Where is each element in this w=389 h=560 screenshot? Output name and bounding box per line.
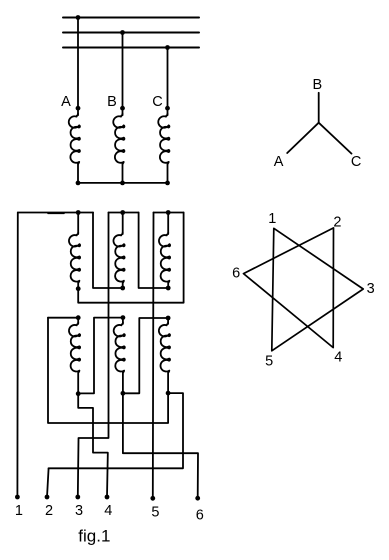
junction coil 1a top bbox=[76, 210, 81, 215]
svg-text:2: 2 bbox=[333, 214, 341, 230]
wire: bracket coil2b-bottom to coil3b-top bbox=[123, 318, 168, 393]
wire: coil1b-top down and over to coil3b-bottom bbox=[48, 318, 168, 423]
junction coil2b top bbox=[121, 315, 126, 320]
svg-text:6: 6 bbox=[196, 508, 204, 524]
wire: phase B drop from L2 bbox=[122, 33, 124, 109]
wire: coil3b-bottom around to terminal 2 bbox=[47, 393, 183, 497]
wire: bracket coil1a-top to coil2a-bottom bbox=[93, 213, 123, 289]
bus line L3 bbox=[63, 47, 199, 49]
wire: phase A drop from L1 bbox=[77, 18, 79, 109]
junction coil 3a top bbox=[166, 210, 171, 215]
junction on L1 bbox=[76, 15, 81, 20]
wire: bracket coil2a-top to coil3a-bottom bbox=[139, 213, 169, 289]
wye symbol stem bbox=[318, 93, 320, 123]
wire: row1 unit1 top bbox=[18, 212, 93, 214]
svg-text:2: 2 bbox=[45, 503, 53, 519]
bus line L2 bbox=[63, 32, 199, 34]
svg-text:4: 4 bbox=[334, 350, 342, 366]
wire: bracket coil1b-bottom to coil2b-top bbox=[78, 318, 123, 394]
wire: feed coil1b top bbox=[48, 317, 78, 319]
svg-text:3: 3 bbox=[367, 281, 375, 297]
svg-text:A: A bbox=[274, 154, 284, 170]
wire overlap segment bbox=[48, 212, 64, 214]
wire: tap unit3 down to terminal 5 bbox=[152, 213, 155, 499]
junction coil3b top bbox=[166, 316, 171, 321]
svg-text:1: 1 bbox=[15, 503, 23, 519]
svg-text:A: A bbox=[61, 94, 71, 110]
coil 1a (row1) bbox=[77, 213, 79, 234]
wire: coil1b-bottom jog down to terminal 4 bbox=[78, 394, 108, 497]
coil 2a (row1) bbox=[122, 213, 124, 234]
svg-text:B: B bbox=[312, 77, 322, 93]
junction coil 2a top bbox=[120, 210, 125, 215]
terminal 2 bbox=[45, 495, 50, 500]
junction rail-C bbox=[165, 181, 170, 186]
bus line L1 bbox=[63, 17, 199, 19]
coil B (phase winding) bbox=[122, 108, 124, 114]
coil 2b (row2) bbox=[122, 318, 124, 323]
svg-text:3: 3 bbox=[75, 503, 83, 519]
svg-text:1: 1 bbox=[268, 211, 276, 227]
terminal 1 bbox=[15, 495, 20, 500]
wye symbol leg C bbox=[319, 123, 352, 154]
junction coil3a bottom bbox=[166, 286, 171, 291]
junction coil1b bottom bbox=[76, 391, 81, 396]
junction coil1b top bbox=[76, 315, 81, 320]
wire: phase C drop from L3 bbox=[167, 48, 169, 109]
wire: row1 unit2 top bbox=[109, 212, 139, 214]
junction rail-B bbox=[120, 181, 125, 186]
phasor triangle 2-4-6 bbox=[244, 228, 334, 348]
terminal 4 bbox=[105, 495, 110, 500]
junction coil2b bottom bbox=[121, 391, 126, 396]
junction on L2 bbox=[120, 30, 125, 35]
terminal 6 bbox=[195, 496, 200, 501]
svg-text:6: 6 bbox=[232, 266, 240, 282]
wire: terminal 1 riser bbox=[16, 213, 18, 498]
junction rail-A bbox=[76, 181, 81, 186]
coil A (phase winding) bbox=[77, 108, 79, 114]
svg-text:C: C bbox=[351, 154, 361, 170]
junction at coil B top bbox=[120, 106, 125, 111]
svg-text:4: 4 bbox=[104, 503, 112, 519]
junction at coil A top bbox=[76, 106, 81, 111]
terminal 3 bbox=[75, 495, 80, 500]
svg-text:B: B bbox=[107, 94, 117, 110]
wire: tap unit2 down to terminal 3 bbox=[78, 213, 109, 498]
svg-text:5: 5 bbox=[151, 504, 159, 520]
junction at coil C top bbox=[165, 106, 170, 111]
coil 1b (row2) bbox=[77, 318, 79, 323]
wire: row1 unit3 top bbox=[154, 212, 184, 214]
svg-text:C: C bbox=[152, 94, 162, 110]
terminal 5 bbox=[150, 496, 155, 501]
coil 3b (row2) bbox=[167, 318, 169, 323]
coil C (phase winding) bbox=[167, 108, 169, 114]
wye symbol leg A bbox=[287, 123, 319, 153]
phasor triangle 1-3-5 bbox=[272, 228, 363, 350]
wire: coil3a-top corner to coil1a-bottom bbox=[78, 213, 183, 303]
neutral rail wire bbox=[78, 182, 168, 184]
junction coil1a bottom bbox=[76, 286, 81, 291]
svg-text:5: 5 bbox=[265, 353, 273, 369]
junction coil2a bottom bbox=[120, 286, 125, 291]
junction on L3 bbox=[165, 45, 170, 50]
svg-text:fig.1: fig.1 bbox=[78, 527, 110, 546]
wire: coil2b-bottom over to terminal 6 bbox=[123, 393, 198, 498]
junction coil3b bottom bbox=[166, 391, 171, 396]
coil 3a (row1) bbox=[167, 213, 169, 234]
